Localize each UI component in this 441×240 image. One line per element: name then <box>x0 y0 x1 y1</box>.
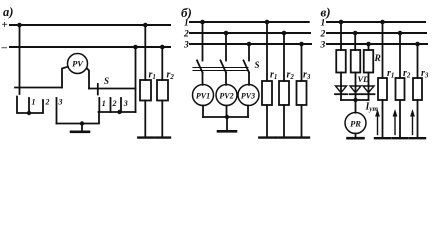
svg-text:3: 3 <box>123 99 128 108</box>
svg-text:PV1: PV1 <box>196 92 210 101</box>
svg-text:Iут: Iут <box>365 102 379 114</box>
wire R3 to VD3 <box>368 73 370 95</box>
resistor R3 <box>364 50 374 73</box>
wiper bar of switch section 1 <box>15 87 62 89</box>
svg-text:–: – <box>1 42 8 54</box>
resistor r3 (v) <box>413 78 422 100</box>
node on - bus at x136 <box>133 45 138 50</box>
wire bus1 to switch pole 1 <box>202 22 204 61</box>
section 1 contact 1 <box>28 98 30 112</box>
svg-text:1: 1 <box>184 19 189 29</box>
wire VD2 down <box>355 94 357 100</box>
wiper tick of section 2 <box>97 84 99 95</box>
voltmeter PV1 <box>193 85 214 106</box>
resistor r1 <box>140 80 151 101</box>
wire R1 to VD1 <box>340 73 342 95</box>
svg-text:R: R <box>374 54 381 64</box>
svg-text:PV3: PV3 <box>241 92 255 101</box>
node bus1/PV1 <box>200 20 205 25</box>
node on - bus at x161 <box>160 45 165 50</box>
section 2 contact 3 <box>120 98 122 112</box>
wire bus3 to r3 (b) <box>301 44 303 81</box>
node bus3/r3 (v) <box>415 42 420 47</box>
resistor r1 (v) <box>378 78 387 100</box>
voltmeter PV2 <box>216 85 237 106</box>
node bus1/r1 <box>265 20 270 25</box>
wire PV2 down <box>226 106 228 118</box>
wire + bus to resistor r1 <box>144 25 146 80</box>
voltmeter PV3 <box>238 85 259 106</box>
bottom link of section 2 contacts <box>99 111 136 113</box>
wire bus3 to R3 <box>368 44 370 50</box>
hull bar r2 (v) <box>393 137 408 139</box>
wire bus1 to r1 (v) <box>382 22 384 78</box>
wire r2 to hull (b) <box>283 105 285 137</box>
hull bar r1 (v) <box>375 137 390 139</box>
earth symbol under PR <box>355 134 357 138</box>
svg-text:+: + <box>2 19 8 31</box>
node bus2/PV2 <box>224 31 229 36</box>
wire - bus to section 2 link <box>135 47 137 112</box>
current arrow 3 <box>410 109 415 135</box>
node bus1/R1 <box>339 20 344 25</box>
svg-text:VD: VD <box>358 74 370 84</box>
wire bus3 to r3 (v) <box>417 44 419 78</box>
node bus3/R3 <box>366 42 371 47</box>
mechanical link of switch S <box>193 67 248 69</box>
svg-text:2: 2 <box>320 30 326 40</box>
wire r1 to hull <box>144 101 146 138</box>
node on + bus at x33 <box>17 23 22 28</box>
resistor r2 <box>157 80 168 101</box>
svg-text:S: S <box>255 60 260 70</box>
hull bar under r1 <box>138 136 153 138</box>
wire pole3 to PV3 <box>248 73 250 85</box>
svg-text:r2: r2 <box>403 68 411 80</box>
current arrow 2 <box>393 109 398 135</box>
wire to PR <box>355 100 357 113</box>
node on section 2 link <box>117 110 121 114</box>
wire R2 to VD2 <box>355 73 357 95</box>
switch S pole 2 blade <box>221 61 227 73</box>
node bus2/R2 <box>353 31 358 36</box>
wire PV3 down <box>247 106 249 118</box>
wire bus3 to switch pole 3 <box>248 44 250 61</box>
voltmeter PV <box>68 54 88 74</box>
node bus3/PV3 <box>247 42 252 47</box>
switch S pole 1 blade <box>197 61 203 73</box>
bus 3 <box>190 43 311 45</box>
resistor R2 <box>351 50 361 73</box>
meter PR <box>345 113 366 134</box>
wire r1 to hull (b) <box>266 105 268 137</box>
hull bar r3 (b) <box>294 136 309 138</box>
earth symbol <box>81 124 83 132</box>
node at ground stem b <box>225 115 229 119</box>
resistor r3 (b) <box>297 81 307 105</box>
bus 2 <box>190 32 310 34</box>
diode VD1 <box>335 86 347 94</box>
svg-text:2: 2 <box>45 98 50 107</box>
wire r3 to hull (v) <box>417 100 419 138</box>
wire PV right terminal down <box>87 68 89 88</box>
diode VD2 <box>350 86 362 94</box>
svg-text:S: S <box>104 76 109 86</box>
bus 3 (v) <box>327 43 427 45</box>
node at ground stem <box>80 121 84 125</box>
node on + bus at x145 <box>143 23 148 28</box>
wire from + bus to switch SA1 contact 1 <box>19 25 21 94</box>
diode VD3 <box>363 86 375 94</box>
wire bus1 to R1 <box>340 22 342 50</box>
svg-text:r3: r3 <box>303 70 311 82</box>
bus 2 (v) <box>327 32 426 34</box>
resistor R1 <box>336 50 346 73</box>
svg-text:а): а) <box>3 5 13 19</box>
node bus1/r1 (v) <box>380 20 385 25</box>
wire bus1 to r1 (b) <box>266 22 268 81</box>
svg-text:r1: r1 <box>149 70 156 82</box>
wire - bus to resistor r2 <box>161 47 163 80</box>
wire bus2 to r2 (v) <box>399 33 401 78</box>
node bus3/r3 <box>299 42 304 47</box>
wire r2 to hull (v) <box>399 100 401 138</box>
node at section1 contact1 <box>27 111 31 115</box>
bottom link of section 1 contacts <box>17 97 43 114</box>
wire r3 to hull (b) <box>301 105 303 137</box>
wire r1 to hull (v) <box>382 100 384 138</box>
svg-text:3: 3 <box>183 41 189 51</box>
wire bus2 to switch pole 2 <box>225 33 227 61</box>
svg-text:PV2: PV2 <box>219 92 233 101</box>
wire VD1 down <box>340 94 342 100</box>
resistor r1 (b) <box>262 81 272 105</box>
resistor r2 (v) <box>396 78 405 100</box>
current arrow 1 <box>375 109 380 135</box>
section 1 contact 3 <box>56 98 58 124</box>
resistor r2 (b) <box>279 81 289 105</box>
node bus2/r2 (v) <box>398 31 403 36</box>
diode output link <box>341 99 369 101</box>
wire r2 to hull <box>161 101 163 138</box>
svg-text:3: 3 <box>58 98 63 107</box>
hull bar under r2 <box>155 136 170 138</box>
svg-text:r2: r2 <box>287 70 295 82</box>
node at PR stem <box>353 98 357 102</box>
wire PV1 down <box>202 106 204 118</box>
svg-text:PR: PR <box>350 119 361 129</box>
bus - (second) <box>10 46 170 48</box>
svg-text:r3: r3 <box>421 68 429 80</box>
svg-text:1: 1 <box>102 99 106 108</box>
bus 1 (v) <box>327 21 425 23</box>
hull bar r1 (b) <box>259 136 275 138</box>
node bus2/r2 <box>282 31 287 36</box>
earth symbol b <box>226 117 228 131</box>
section 2 contact 2 <box>110 98 112 112</box>
bottom link wire <box>203 116 248 118</box>
wire PV left terminal to switch section 1 wiper <box>62 67 68 88</box>
hull bar r2 (b) <box>276 136 291 138</box>
wiper bar of switch section 2 <box>89 88 136 90</box>
section 1 contact 2 <box>42 100 44 112</box>
wire pole2 to PV2 <box>225 73 227 85</box>
ground wire <box>57 112 100 124</box>
svg-text:1: 1 <box>321 19 326 29</box>
bus + (top) <box>10 24 170 26</box>
wire bus2 to R2 <box>354 33 356 50</box>
svg-text:PV: PV <box>72 59 84 69</box>
section 2 contact 1 <box>98 98 100 112</box>
svg-text:в): в) <box>321 5 331 20</box>
svg-text:r1: r1 <box>270 70 277 82</box>
svg-text:r1: r1 <box>387 68 394 80</box>
wire pole1 to PV1 <box>202 73 204 85</box>
svg-text:1: 1 <box>32 98 36 107</box>
wire VD3 down <box>368 94 370 100</box>
svg-text:3: 3 <box>320 41 326 51</box>
svg-text:2: 2 <box>112 99 117 108</box>
hull bar r3 (v) <box>410 137 425 139</box>
svg-text:2: 2 <box>183 30 189 40</box>
bus 1 <box>190 21 309 23</box>
wire bus2 to r2 (b) <box>283 33 285 81</box>
switch S pole 3 blade <box>244 61 250 73</box>
svg-text:r2: r2 <box>167 70 175 82</box>
